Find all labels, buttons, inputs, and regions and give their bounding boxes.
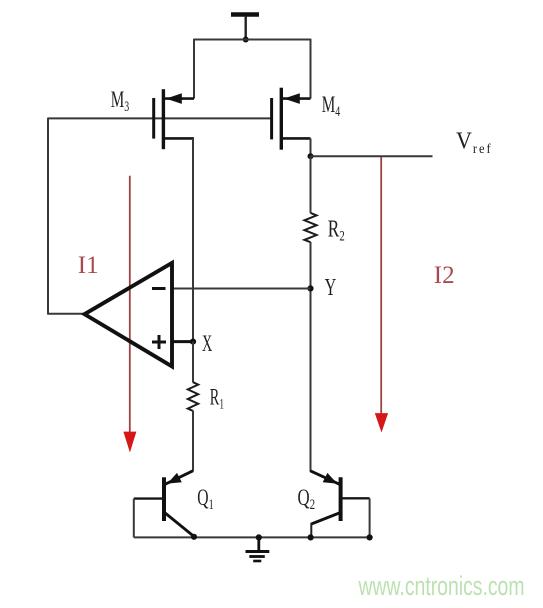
svg-text:I1: I1	[78, 252, 99, 279]
junction dot Vref node	[308, 153, 314, 159]
wire R2 to node Y and down to Q2 emitter	[310, 242, 312, 472]
node X junction dot	[190, 339, 196, 345]
svg-text:I2: I2	[434, 262, 455, 289]
transistor M4	[272, 88, 311, 150]
label Vref	[456, 127, 493, 156]
svg-text:Vref: Vref	[456, 127, 493, 156]
svg-text:X: X	[202, 332, 212, 357]
label M3	[111, 88, 129, 114]
transistor Q1	[134, 471, 194, 537]
wire left vertical feedback	[47, 118, 49, 314]
svg-text:R2: R2	[328, 215, 345, 244]
wire M4 drain to Vref junction	[310, 138, 312, 156]
label X	[202, 332, 212, 357]
current arrow I1 (red line)	[123, 176, 136, 453]
label Q1	[197, 485, 213, 512]
wire Vref junction down to R2	[310, 156, 312, 213]
resistor R1	[188, 382, 198, 411]
wire top rail	[194, 39, 311, 41]
junction dot Q2 base	[367, 534, 373, 540]
transistor Q2	[310, 471, 369, 538]
power supply symbol	[231, 15, 259, 40]
wire Q2 base down	[369, 498, 371, 537]
wire bottom rail	[134, 536, 370, 538]
label M4	[322, 93, 341, 119]
wire M3 drain vertical to node X	[192, 138, 194, 341]
svg-text:M3: M3	[111, 88, 129, 114]
junction dot ground	[256, 534, 262, 540]
op-amp U1	[85, 263, 194, 367]
node Y junction dot	[307, 285, 313, 291]
resistor R2	[304, 213, 316, 242]
svg-text:www.cntronics.com: www.cntronics.com	[358, 571, 525, 601]
svg-text:Q2: Q2	[298, 486, 316, 513]
label Y	[325, 275, 337, 301]
wire R1 down to Q1 emitter	[192, 411, 194, 472]
transistor M3	[154, 89, 194, 149]
junction dot supply	[243, 37, 249, 43]
label R2	[328, 215, 345, 244]
junction dot Q1 collector	[191, 534, 197, 540]
wire right drop to M4 source	[310, 39, 312, 99]
wire Q1 base down	[133, 499, 135, 538]
label R1	[210, 385, 224, 412]
wire op-amp inverting input to node Y	[172, 288, 311, 290]
wire op-amp output stub	[47, 313, 85, 315]
wire node X down to R1	[192, 342, 194, 383]
junction dot Q2 collector	[308, 534, 314, 540]
svg-text:M4: M4	[322, 93, 341, 119]
wire gate line M3-M4	[48, 117, 272, 119]
ground	[246, 537, 270, 561]
wire left drop to M3 source	[193, 39, 195, 99]
current arrow I2 (red line)	[375, 156, 388, 432]
svg-text:Y: Y	[325, 275, 337, 301]
svg-text:R1: R1	[210, 385, 224, 412]
svg-text:Q1: Q1	[197, 485, 213, 512]
wire Vref rail	[311, 155, 433, 157]
label Q2	[298, 486, 316, 513]
